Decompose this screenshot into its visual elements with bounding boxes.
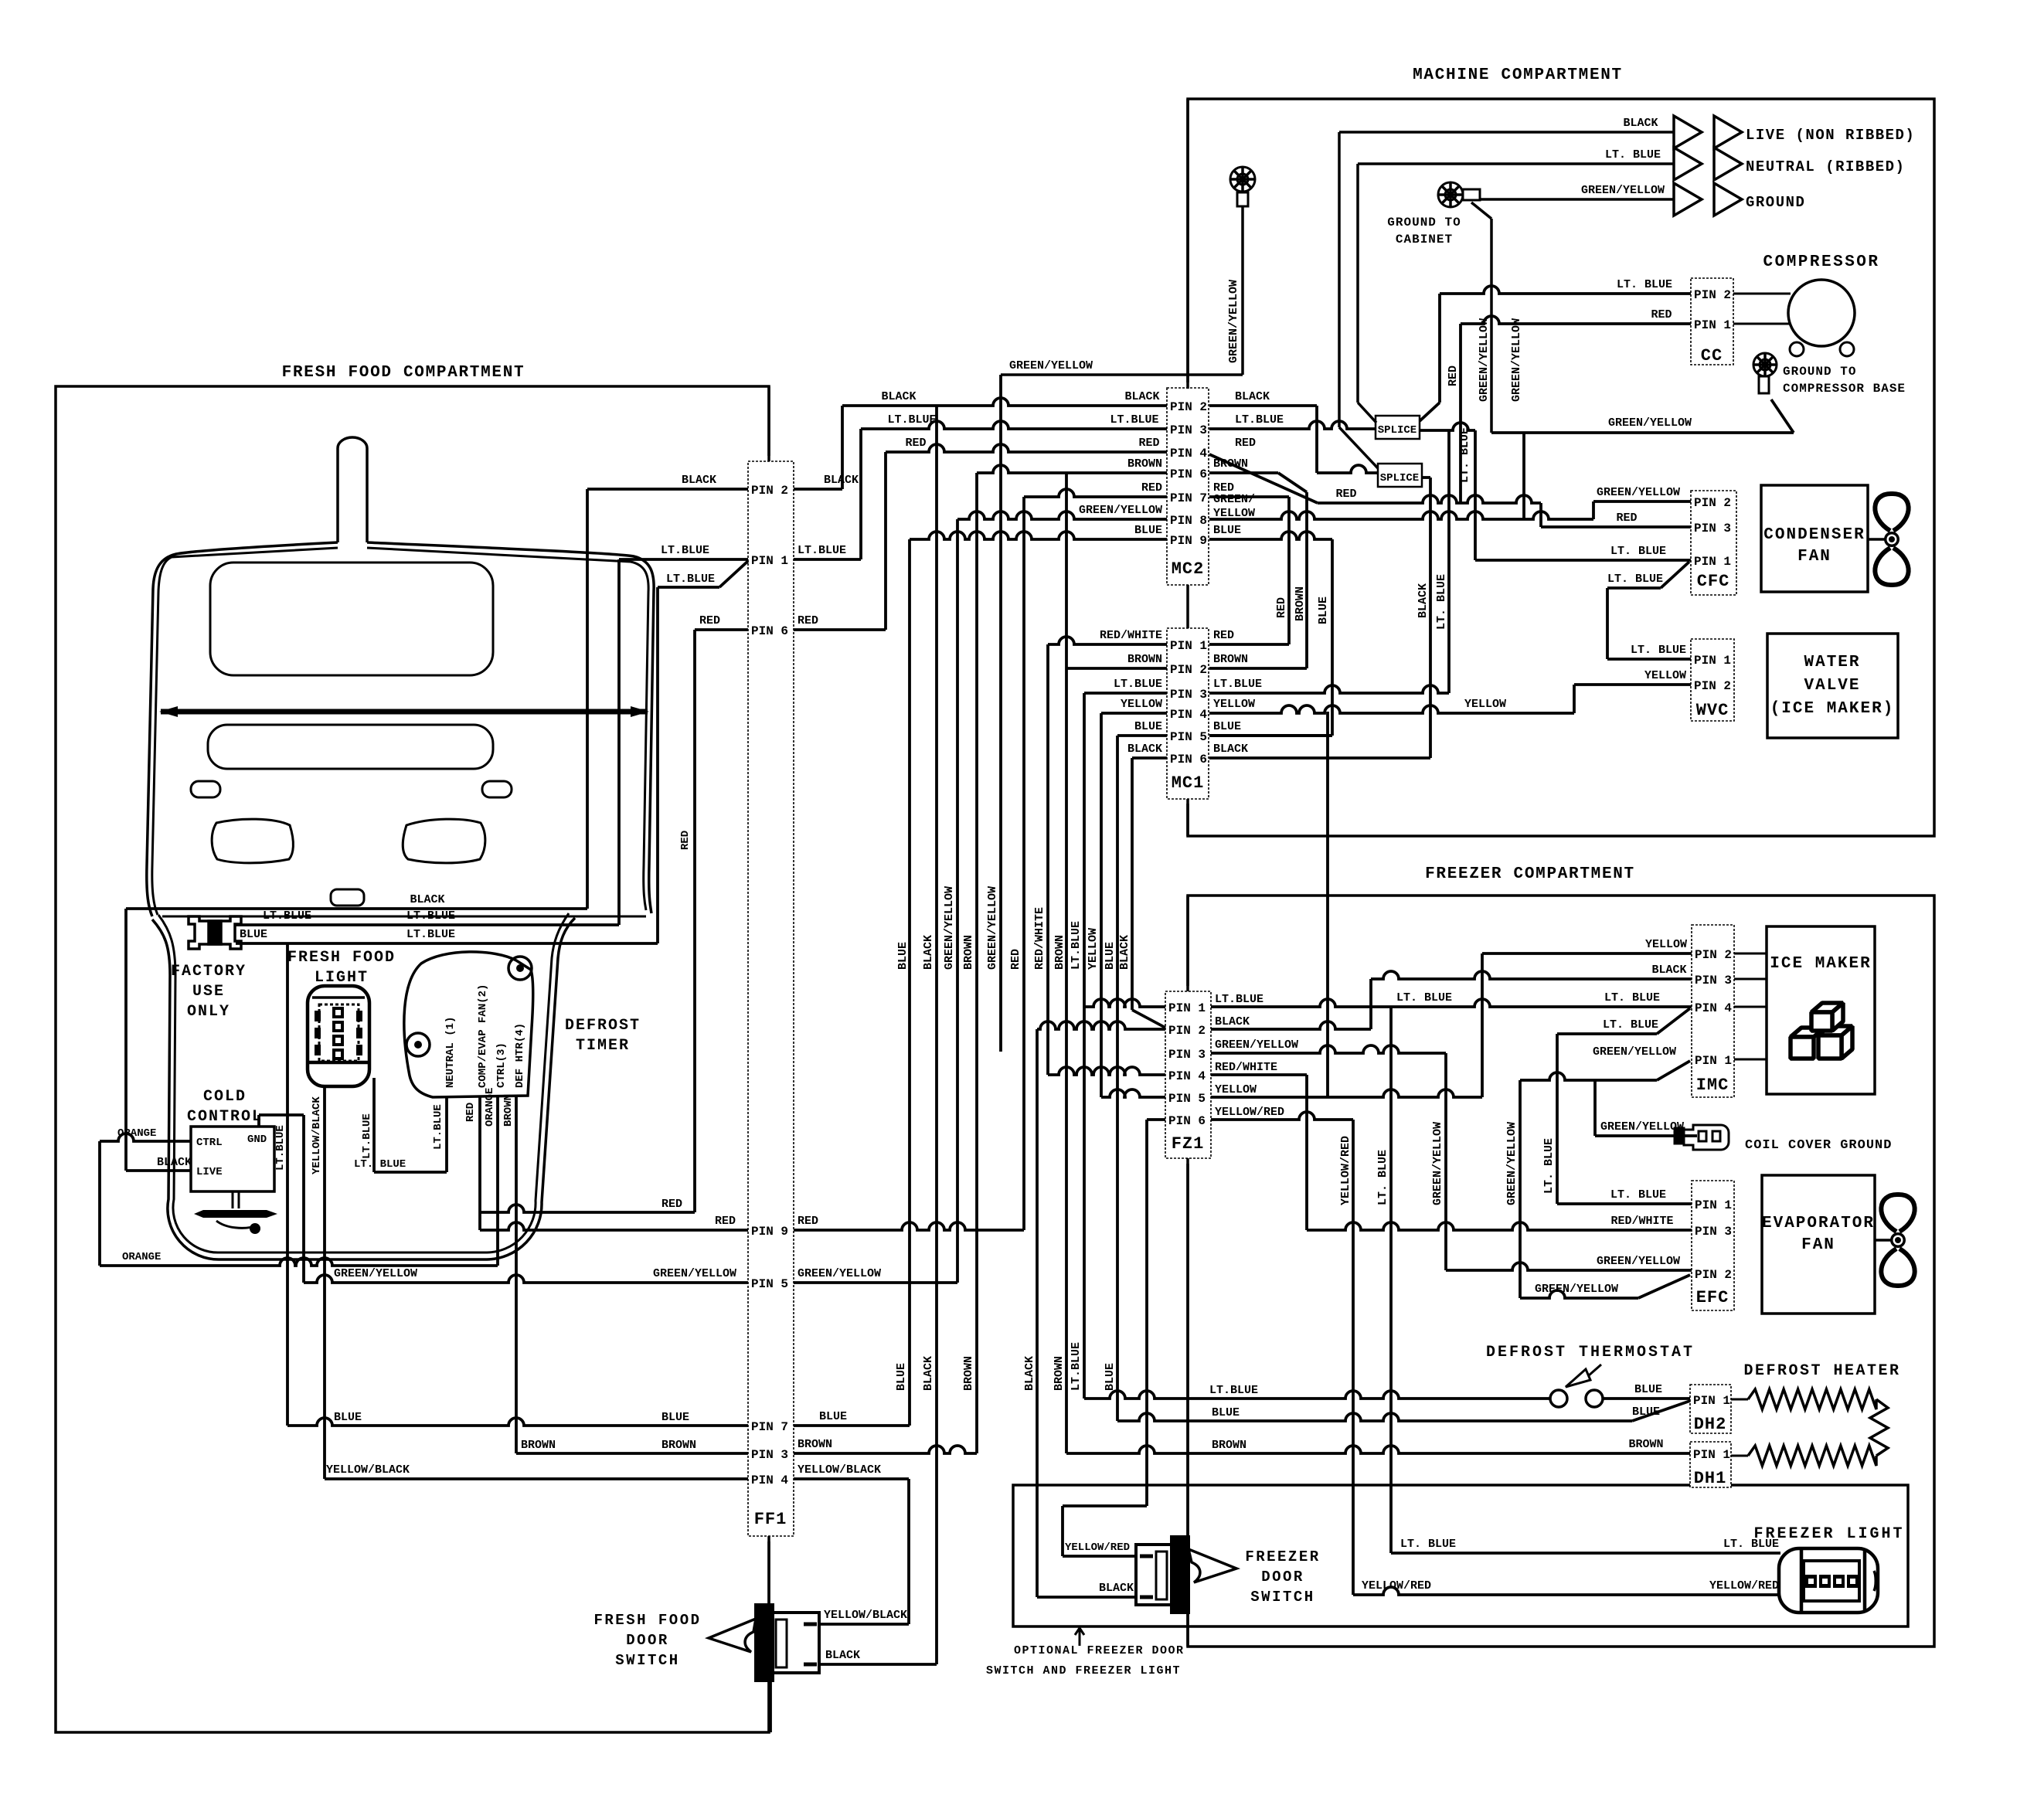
svg-text:PIN 3: PIN 3 bbox=[1170, 423, 1207, 437]
wire BLACK live supply bbox=[1339, 131, 1674, 134]
svg-text:BLUE: BLUE bbox=[1634, 1383, 1662, 1396]
svg-text:LT.BLUE: LT.BLUE bbox=[361, 1113, 373, 1159]
svg-text:PIN 3: PIN 3 bbox=[1170, 688, 1207, 702]
wire YELLOW FZ1 PIN5 to IMC PIN2 bbox=[1211, 1089, 1482, 1097]
svg-text:DH1: DH1 bbox=[1694, 1469, 1727, 1488]
cabinet inner outline bbox=[152, 548, 648, 915]
svg-text:FZ1: FZ1 bbox=[1172, 1134, 1205, 1154]
svg-text:TIMER: TIMER bbox=[576, 1037, 630, 1055]
svg-text:YELLOW/RED: YELLOW/RED bbox=[1709, 1579, 1779, 1592]
svg-text:BROWN: BROWN bbox=[661, 1439, 696, 1452]
svg-text:GREEN/YELLOW: GREEN/YELLOW bbox=[653, 1267, 736, 1280]
svg-text:YELLOW: YELLOW bbox=[1645, 938, 1687, 951]
svg-text:SWITCH: SWITCH bbox=[1250, 1589, 1314, 1606]
connector DH1 bbox=[1690, 1442, 1731, 1487]
fresh food door switch icon bbox=[709, 1605, 819, 1681]
svg-text:BROWN: BROWN bbox=[521, 1439, 556, 1452]
svg-text:BLACK: BLACK bbox=[410, 893, 444, 906]
svg-text:BROWN: BROWN bbox=[1053, 935, 1066, 970]
svg-text:CONDENSER: CONDENSER bbox=[1763, 526, 1865, 544]
wire YELLOW/BLACK FF1 PIN4 to FF door switch bbox=[794, 1477, 909, 1480]
svg-text:PIN 2: PIN 2 bbox=[1694, 288, 1731, 302]
svg-text:RED: RED bbox=[1213, 629, 1234, 642]
svg-text:BLACK: BLACK bbox=[825, 1649, 860, 1662]
svg-text:PIN 2: PIN 2 bbox=[1694, 679, 1731, 693]
svg-text:RED: RED bbox=[1651, 308, 1672, 321]
wire GREEN/YELLOW branch down to PIN8 row bbox=[1522, 433, 1525, 519]
svg-text:PIN 2: PIN 2 bbox=[1170, 400, 1207, 414]
svg-text:PIN 3: PIN 3 bbox=[1694, 522, 1731, 535]
svg-text:BLACK: BLACK bbox=[1118, 935, 1131, 970]
LIVE terminal arrows bbox=[1674, 116, 1702, 148]
svg-text:BROWN: BROWN bbox=[1053, 1356, 1066, 1391]
svg-text:RED: RED bbox=[1235, 437, 1256, 450]
svg-text:FAN: FAN bbox=[1797, 548, 1831, 566]
svg-text:FRESH FOOD COMPARTMENT: FRESH FOOD COMPARTMENT bbox=[282, 364, 525, 382]
factory use plug bbox=[189, 916, 241, 949]
svg-text:PIN 4: PIN 4 bbox=[1170, 447, 1207, 461]
svg-text:BLACK: BLACK bbox=[1213, 743, 1248, 756]
wire BLUE factory plug to FF1 PIN1 second bbox=[236, 942, 658, 945]
wire BLACK MC2 PIN2 to splice2 bbox=[1209, 404, 1317, 407]
svg-text:GREEN/YELLOW: GREEN/YELLOW bbox=[1227, 280, 1240, 363]
svg-text:PIN 1: PIN 1 bbox=[1694, 318, 1731, 332]
svg-text:GREEN/YELLOW: GREEN/YELLOW bbox=[1079, 504, 1162, 517]
wire BLUE MC1 PIN5 left to DH2 row bbox=[1117, 734, 1167, 737]
defrost timer body bbox=[404, 952, 533, 1097]
svg-text:GREEN/YELLOW: GREEN/YELLOW bbox=[1431, 1122, 1444, 1205]
wire LT.BLUE splice1 to CC PIN2 bbox=[1420, 403, 1440, 421]
svg-text:YELLOW/BLACK: YELLOW/BLACK bbox=[311, 1096, 323, 1174]
svg-text:GREEN/YELLOW: GREEN/YELLOW bbox=[1505, 1122, 1519, 1205]
svg-text:BROWN: BROWN bbox=[1212, 1439, 1246, 1452]
svg-text:BLACK: BLACK bbox=[824, 474, 859, 487]
svg-text:ICE MAKER: ICE MAKER bbox=[1770, 955, 1871, 973]
svg-text:RED/WHITE: RED/WHITE bbox=[1610, 1215, 1673, 1228]
wire YELLOW MC1 PIN4 to WVC PIN2 bbox=[1209, 705, 1574, 713]
svg-text:DEFROST THERMOSTAT: DEFROST THERMOSTAT bbox=[1486, 1344, 1695, 1361]
wire BLACK diagonal into splice2 bbox=[1339, 427, 1378, 468]
svg-text:FF1: FF1 bbox=[754, 1510, 787, 1529]
svg-text:PIN 9: PIN 9 bbox=[751, 1225, 788, 1239]
svg-text:PIN 4: PIN 4 bbox=[1170, 708, 1207, 722]
wire RED MC2 PIN7 to MC1 PIN1 bbox=[1209, 495, 1289, 498]
cabinet slot left bbox=[191, 781, 220, 797]
svg-text:RED: RED bbox=[661, 1198, 682, 1211]
svg-text:RED: RED bbox=[798, 614, 818, 627]
wire GREEN/YELLOW cabinet bolt drop bbox=[1471, 202, 1491, 219]
svg-text:PIN 7: PIN 7 bbox=[751, 1420, 788, 1434]
wire BLACK FZ1 PIN2 to IMC PIN3 bbox=[1211, 1021, 1371, 1029]
CC pin wires to compressor bbox=[1733, 293, 1791, 295]
svg-text:LT.BLUE: LT.BLUE bbox=[432, 1104, 444, 1150]
svg-text:GREEN/YELLOW: GREEN/YELLOW bbox=[1593, 1045, 1676, 1059]
svg-text:BLACK: BLACK bbox=[1417, 583, 1430, 618]
svg-text:LT. BLUE: LT. BLUE bbox=[1723, 1538, 1779, 1551]
svg-text:LT.BLUE: LT.BLUE bbox=[887, 413, 936, 427]
svg-text:ORANGE: ORANGE bbox=[484, 1088, 496, 1127]
connector WVC bbox=[1691, 639, 1734, 721]
cabinet lower panel bbox=[208, 725, 493, 769]
svg-text:MACHINE COMPARTMENT: MACHINE COMPARTMENT bbox=[1413, 66, 1623, 84]
svg-text:PIN 2: PIN 2 bbox=[1694, 496, 1731, 510]
svg-text:DOOR: DOOR bbox=[1261, 1569, 1304, 1586]
svg-text:LT.BLUE: LT.BLUE bbox=[406, 928, 455, 941]
cabinet outer outline bbox=[147, 437, 654, 916]
svg-text:BROWN: BROWN bbox=[1213, 457, 1248, 471]
wire LT.BLUE branch to freezer light bbox=[1389, 1007, 1393, 1553]
svg-text:OPTIONAL FREEZER DOOR: OPTIONAL FREEZER DOOR bbox=[1014, 1644, 1185, 1657]
wire BROWN MC1 PIN2 left long vertical to DH1 row bbox=[1066, 667, 1167, 670]
svg-text:LT.BLUE: LT.BLUE bbox=[1209, 1384, 1258, 1397]
svg-text:BLUE: BLUE bbox=[819, 1410, 847, 1423]
wire BLACK splice2 to MC1 PIN6 bbox=[1422, 476, 1430, 479]
svg-text:ONLY: ONLY bbox=[187, 1003, 230, 1021]
freezer door switch icon bbox=[1136, 1537, 1236, 1613]
svg-text:BLUE: BLUE bbox=[895, 1363, 908, 1391]
wire YELLOW/RED FZ1 PIN6 to optional switch bbox=[1147, 1118, 1165, 1121]
svg-text:BLACK: BLACK bbox=[1215, 1015, 1250, 1028]
svg-text:CONTROL: CONTROL bbox=[187, 1108, 263, 1126]
heater right side vertical zigzag bbox=[1870, 1399, 1888, 1456]
wire LT.BLUE lamp to timer NEUTRAL bbox=[372, 1078, 376, 1172]
svg-text:GREEN/YELLOW: GREEN/YELLOW bbox=[1597, 486, 1680, 499]
condenser fan blades bbox=[1875, 494, 1908, 585]
wire RED FF1 PIN6 to MC2 PIN4 bbox=[794, 628, 886, 631]
svg-text:RED: RED bbox=[798, 1215, 818, 1228]
svg-text:GREEN/YELLOW: GREEN/YELLOW bbox=[334, 1267, 417, 1280]
svg-text:YELLOW/BLACK: YELLOW/BLACK bbox=[824, 1609, 907, 1622]
svg-text:DEFROST: DEFROST bbox=[565, 1017, 641, 1035]
svg-text:LT. BLUE: LT. BLUE bbox=[1435, 574, 1448, 630]
optional freezer door switch/light box bbox=[1013, 1485, 1908, 1626]
svg-text:LT. BLUE: LT. BLUE bbox=[1603, 1018, 1658, 1032]
svg-text:CTRL: CTRL bbox=[196, 1137, 223, 1149]
svg-text:BLUE: BLUE bbox=[1213, 524, 1241, 537]
wire LT.BLUE MC1 PIN3 up to splice row bbox=[1209, 685, 1449, 693]
svg-text:BLUE: BLUE bbox=[661, 1411, 689, 1424]
svg-text:GROUND TO: GROUND TO bbox=[1783, 365, 1856, 379]
svg-text:PIN 3: PIN 3 bbox=[751, 1448, 788, 1462]
svg-text:SWITCH AND FREEZER LIGHT: SWITCH AND FREEZER LIGHT bbox=[986, 1664, 1181, 1677]
svg-text:PIN 5: PIN 5 bbox=[751, 1277, 788, 1291]
evaporator fan blades bbox=[1881, 1195, 1914, 1286]
svg-text:COIL COVER GROUND: COIL COVER GROUND bbox=[1745, 1138, 1892, 1153]
svg-text:PIN 5: PIN 5 bbox=[1168, 1092, 1206, 1106]
svg-text:LT. BLUE: LT. BLUE bbox=[1610, 545, 1666, 558]
ground-to-compressor-base bolt bbox=[1753, 353, 1777, 376]
svg-text:ORANGE: ORANGE bbox=[122, 1251, 161, 1263]
wire BLACK FF1 PIN2 to MC2 PIN2 bbox=[794, 488, 842, 491]
svg-text:EVAPORATOR: EVAPORATOR bbox=[1762, 1215, 1875, 1232]
svg-text:RED: RED bbox=[1138, 437, 1159, 450]
svg-text:PIN 1: PIN 1 bbox=[1693, 1394, 1730, 1408]
wire RED/WHITE FZ1 PIN4 to EFC PIN3 bbox=[1211, 1073, 1307, 1076]
connector CC bbox=[1691, 278, 1733, 365]
svg-text:LT.BLUE: LT.BLUE bbox=[1110, 413, 1158, 427]
connector EFC bbox=[1692, 1181, 1734, 1310]
svg-text:LT. BLUE: LT. BLUE bbox=[354, 1158, 406, 1171]
svg-text:RED: RED bbox=[715, 1215, 736, 1228]
svg-text:GREEN/YELLOW: GREEN/YELLOW bbox=[1597, 1255, 1680, 1268]
machine compartment box bbox=[1188, 99, 1934, 836]
wire BLACK FF1 PIN2 to cold control LIVE bbox=[126, 907, 587, 910]
svg-text:LT.BLUE: LT.BLUE bbox=[263, 909, 311, 923]
svg-text:RED: RED bbox=[679, 831, 692, 850]
svg-text:BLUE: BLUE bbox=[1134, 720, 1162, 733]
svg-text:BLACK: BLACK bbox=[1023, 1356, 1036, 1391]
svg-text:BROWN: BROWN bbox=[1127, 457, 1162, 471]
wire RED step down to CFC PIN3 bbox=[1539, 503, 1542, 527]
svg-text:BLACK: BLACK bbox=[682, 474, 716, 487]
cabinet ceiling panel bbox=[210, 563, 493, 675]
svg-text:BLACK: BLACK bbox=[1127, 743, 1162, 756]
defrost thermostat contacts bbox=[1550, 1390, 1567, 1407]
svg-text:PIN 4: PIN 4 bbox=[1695, 1001, 1732, 1015]
svg-text:BROWN: BROWN bbox=[1127, 653, 1162, 666]
wire LT.BLUE IMC PIN4 branch to EFC PIN1 bbox=[1657, 1008, 1690, 1034]
wire ORANGE cold control CTRL to timer bbox=[100, 1134, 191, 1141]
svg-text:RED/WHITE: RED/WHITE bbox=[1215, 1061, 1277, 1074]
svg-text:LT.BLUE: LT.BLUE bbox=[406, 909, 455, 923]
svg-text:YELLOW/RED: YELLOW/RED bbox=[1215, 1106, 1284, 1119]
svg-text:GREEN/YELLOW: GREEN/YELLOW bbox=[1608, 416, 1692, 430]
svg-text:LT. BLUE: LT. BLUE bbox=[1631, 644, 1686, 657]
wire BLACK MC1 PIN6 left to FZ1 PIN2 bbox=[1132, 756, 1167, 760]
water valve box bbox=[1767, 634, 1898, 738]
svg-text:BROWN: BROWN bbox=[798, 1438, 832, 1451]
wire LT.BLUE diagonal into splice1 bbox=[1358, 403, 1376, 423]
svg-text:PIN 4: PIN 4 bbox=[751, 1473, 788, 1487]
svg-text:BLACK: BLACK bbox=[881, 390, 916, 403]
svg-text:GREEN/YELLOW: GREEN/YELLOW bbox=[1478, 318, 1491, 402]
svg-text:PIN 3: PIN 3 bbox=[1168, 1048, 1206, 1062]
svg-text:GREEN/YELLOW: GREEN/YELLOW bbox=[943, 886, 956, 970]
svg-text:BLACK: BLACK bbox=[1124, 390, 1159, 403]
svg-text:BLUE: BLUE bbox=[1317, 597, 1330, 624]
cabinet pan right bbox=[403, 819, 485, 863]
svg-text:BLACK: BLACK bbox=[922, 935, 935, 970]
compressor motor circle bbox=[1788, 280, 1855, 346]
splice box 2 bbox=[1378, 464, 1422, 487]
svg-text:SWITCH: SWITCH bbox=[615, 1652, 679, 1669]
svg-text:BLUE: BLUE bbox=[1104, 942, 1117, 970]
svg-text:YELLOW: YELLOW bbox=[1464, 698, 1506, 711]
svg-text:BLUE: BLUE bbox=[1134, 524, 1162, 537]
thermostat lever arrow bbox=[1566, 1369, 1590, 1387]
svg-text:BLUE: BLUE bbox=[1212, 1406, 1240, 1419]
connector IMC bbox=[1692, 925, 1734, 1097]
svg-text:BLACK: BLACK bbox=[1099, 1582, 1134, 1595]
svg-text:LT. BLUE: LT. BLUE bbox=[1542, 1138, 1556, 1194]
svg-text:WATER: WATER bbox=[1804, 654, 1860, 671]
svg-text:PIN 1: PIN 1 bbox=[1693, 1448, 1730, 1462]
wire LT.BLUE splice1 right to CFC PIN1 bbox=[1420, 423, 1475, 430]
svg-text:LT.BLUE: LT.BLUE bbox=[661, 544, 709, 557]
wire BLACK bundle from black row to FF door switch bbox=[935, 406, 938, 1664]
svg-text:GROUND TO: GROUND TO bbox=[1387, 216, 1461, 229]
wire LT.BLUE MC2 PIN3 to splice1 bbox=[1209, 421, 1376, 429]
svg-text:YELLOW/BLACK: YELLOW/BLACK bbox=[798, 1463, 881, 1477]
svg-text:GROUND: GROUND bbox=[1746, 194, 1805, 211]
svg-text:BLUE: BLUE bbox=[1213, 720, 1241, 733]
fresh food compartment box bbox=[56, 386, 769, 1732]
svg-text:PIN 2: PIN 2 bbox=[1168, 1024, 1206, 1038]
wire BLACK FZ1 PIN2 left to freezer door switch bbox=[1037, 1021, 1165, 1029]
svg-text:COMPRESSOR: COMPRESSOR bbox=[1763, 253, 1879, 271]
ground-to-cabinet bolt bbox=[1438, 182, 1463, 207]
svg-text:BLUE: BLUE bbox=[334, 1411, 362, 1424]
connector FF1 bbox=[748, 461, 794, 1536]
wire GREEN/YELLOW cabinet run to compressor base bbox=[1491, 431, 1794, 434]
defrost heater element zigzag bbox=[1748, 1389, 1876, 1409]
svg-text:PIN 3: PIN 3 bbox=[1695, 1225, 1732, 1239]
svg-text:PIN 1: PIN 1 bbox=[1695, 1198, 1732, 1212]
svg-text:GREEN/YELLOW: GREEN/YELLOW bbox=[1215, 1038, 1298, 1052]
wire YELLOW MC1 PIN4 left to FZ1 PIN5 bbox=[1101, 712, 1167, 715]
wire BROWN FF1 PIN3 row bbox=[794, 1446, 977, 1453]
wire LT.BLUE FF1 PIN1 to MC2 PIN3 bbox=[794, 558, 861, 561]
svg-text:YELLOW: YELLOW bbox=[1215, 1083, 1257, 1096]
svg-text:LT.BLUE: LT.BLUE bbox=[798, 544, 846, 557]
svg-text:YELLOW: YELLOW bbox=[1213, 698, 1255, 711]
connector DH2 bbox=[1690, 1385, 1731, 1433]
box edge segments at connectors bbox=[1186, 99, 1189, 389]
wire BROWN MC2 PIN6 to MC1 PIN2 bbox=[1209, 471, 1278, 474]
wire BROWN bundle MC2 PIN6 left to FF1 PIN3 row bbox=[977, 465, 1167, 473]
svg-text:PIN 6: PIN 6 bbox=[751, 624, 788, 638]
IMC pin stub wires to ice maker bbox=[1734, 953, 1767, 955]
wire RED timer FAN2 to FF1 PIN6/PIN9 bbox=[478, 1097, 481, 1230]
wire GREEN/YELLOW cold control GND to FF1 PIN5 bbox=[257, 1115, 260, 1127]
svg-text:GREEN/YELLOW: GREEN/YELLOW bbox=[1581, 184, 1665, 197]
svg-text:DOOR: DOOR bbox=[626, 1632, 669, 1649]
svg-text:FRESH FOOD: FRESH FOOD bbox=[593, 1612, 701, 1629]
svg-text:WVC: WVC bbox=[1696, 701, 1729, 720]
svg-text:RED: RED bbox=[1447, 365, 1460, 386]
svg-text:FACTORY: FACTORY bbox=[171, 963, 247, 981]
cold control box bbox=[191, 1127, 274, 1191]
svg-text:DH2: DH2 bbox=[1694, 1415, 1727, 1434]
svg-text:BLACK: BLACK bbox=[1651, 964, 1686, 977]
coil cover ground icon bbox=[1675, 1125, 1729, 1150]
cabinet center notch bbox=[331, 889, 364, 906]
svg-text:YELLOW: YELLOW bbox=[1644, 669, 1686, 682]
cold control shaft and wiper bbox=[233, 1191, 239, 1208]
svg-text:RED: RED bbox=[1335, 488, 1356, 501]
svg-text:PIN 1: PIN 1 bbox=[1170, 639, 1207, 653]
wire RED MC2 PIN4 net bbox=[1209, 454, 1318, 503]
connector MC1 bbox=[1167, 628, 1209, 799]
svg-text:PIN 3: PIN 3 bbox=[1695, 974, 1732, 987]
svg-text:LT.BLUE: LT.BLUE bbox=[1235, 413, 1284, 427]
wire LT.BLUE MC1 PIN3 left to FZ1 PIN1 and thermostat bbox=[1084, 692, 1167, 695]
svg-text:GREEN/YELLOW: GREEN/YELLOW bbox=[1510, 318, 1523, 402]
svg-text:LT. BLUE: LT. BLUE bbox=[1396, 991, 1452, 1004]
svg-text:GREEN/YELLOW: GREEN/YELLOW bbox=[1600, 1120, 1684, 1134]
wire LT.BLUE thermostat row to DH2 bbox=[1084, 1391, 1550, 1399]
svg-text:BROWN: BROWN bbox=[962, 1356, 975, 1391]
svg-text:LT.BLUE: LT.BLUE bbox=[1114, 678, 1162, 691]
svg-text:PIN 1: PIN 1 bbox=[751, 554, 788, 568]
svg-text:RED: RED bbox=[1616, 512, 1637, 525]
ice maker box bbox=[1767, 926, 1875, 1094]
svg-text:LIGHT: LIGHT bbox=[315, 969, 369, 987]
svg-text:MC1: MC1 bbox=[1172, 773, 1205, 793]
svg-text:GND: GND bbox=[247, 1134, 267, 1146]
wire BROWN row to DH1 bbox=[1066, 1446, 1690, 1453]
svg-text:PIN 1: PIN 1 bbox=[1694, 654, 1731, 668]
fresh food light lamp icon bbox=[308, 986, 369, 1086]
svg-text:BROWN: BROWN bbox=[1628, 1438, 1663, 1451]
svg-text:BROWN: BROWN bbox=[1213, 653, 1248, 666]
NEUTRAL terminal arrows bbox=[1674, 148, 1702, 180]
svg-text:CFC: CFC bbox=[1697, 572, 1730, 591]
svg-text:COMP/EVAP FAN(2): COMP/EVAP FAN(2) bbox=[477, 984, 489, 1088]
wire LT.BLUE CFC PIN1 branch to WVC PIN1 bbox=[1661, 562, 1689, 588]
wire BLUE MC2 PIN9 to MC1 PIN5 bbox=[1209, 532, 1332, 539]
wire BLUE cold control branch to FF1 PIN7 bbox=[286, 943, 289, 1426]
svg-text:LT. BLUE: LT. BLUE bbox=[1604, 991, 1660, 1004]
evaporator fan box bbox=[1762, 1175, 1875, 1314]
ice cubes icon bbox=[1791, 1003, 1852, 1059]
wire BLACK vertical from LIVE bbox=[1338, 132, 1341, 427]
wire YELLOW/BLACK lamp to FF1 PIN4 bbox=[323, 1086, 326, 1479]
svg-text:PIN 4: PIN 4 bbox=[1168, 1069, 1206, 1083]
wire RED MC2 PIN7 left to FF1 PIN9 bbox=[1024, 489, 1167, 497]
wire FF door switch bottom to box edge bbox=[769, 1673, 772, 1732]
optional box caption arrow bbox=[1075, 1628, 1084, 1646]
svg-text:PIN 5: PIN 5 bbox=[1170, 730, 1207, 744]
condenser fan box bbox=[1761, 485, 1868, 592]
svg-text:COLD: COLD bbox=[203, 1088, 247, 1106]
cabinet pan left bbox=[212, 819, 293, 863]
wire YELLOW/RED FZ1 PIN6 right to freezer light bbox=[1211, 1112, 1353, 1120]
svg-text:LIVE (NON RIBBED): LIVE (NON RIBBED) bbox=[1746, 127, 1915, 144]
svg-text:RED/WHITE: RED/WHITE bbox=[1100, 629, 1162, 642]
wire GREEN/YELLOW ground supply bbox=[1480, 198, 1674, 201]
svg-text:PIN 1: PIN 1 bbox=[1694, 555, 1731, 569]
wire BLUE bundle MC2 PIN9 left to FF1 PIN7 bbox=[910, 532, 1167, 539]
wire RED vertical to CC PIN1 bbox=[1459, 324, 1462, 503]
svg-text:LIVE: LIVE bbox=[196, 1166, 223, 1178]
freezer compartment box bbox=[1188, 896, 1934, 1647]
svg-text:YELLOW: YELLOW bbox=[1213, 507, 1255, 520]
svg-text:GREEN/YELLOW: GREEN/YELLOW bbox=[1535, 1283, 1618, 1296]
wire GREEN/YELLOW IMC PIN1 / coil ground / EFC PIN2 bbox=[1657, 1061, 1690, 1080]
svg-text:PIN 6: PIN 6 bbox=[1170, 467, 1207, 481]
svg-text:BLUE: BLUE bbox=[1632, 1405, 1660, 1419]
svg-text:LT.BLUE: LT.BLUE bbox=[666, 573, 715, 586]
svg-text:SPLICE: SPLICE bbox=[1380, 472, 1419, 484]
svg-text:BROWN: BROWN bbox=[962, 935, 975, 970]
svg-text:NEUTRAL (1): NEUTRAL (1) bbox=[444, 1017, 457, 1088]
wire LT.BLUE FZ1 PIN1 to IMC PIN4 bbox=[1211, 999, 1692, 1007]
wire LT.BLUE factory plug to FF1 PIN1 bbox=[236, 923, 619, 926]
svg-text:FREEZER COMPARTMENT: FREEZER COMPARTMENT bbox=[1425, 865, 1635, 883]
svg-text:BLUE: BLUE bbox=[240, 928, 267, 941]
cabinet bottom rail bbox=[162, 916, 646, 918]
svg-text:LT. BLUE: LT. BLUE bbox=[1376, 1150, 1389, 1205]
svg-text:CC: CC bbox=[1701, 346, 1723, 365]
door outline bbox=[152, 918, 575, 1259]
cabinet slot right bbox=[482, 781, 512, 797]
svg-text:NEUTRAL (RIBBED): NEUTRAL (RIBBED) bbox=[1746, 158, 1905, 175]
svg-text:LT.BLUE: LT.BLUE bbox=[1070, 921, 1083, 970]
svg-text:RED: RED bbox=[1275, 597, 1288, 618]
svg-text:MC2: MC2 bbox=[1172, 559, 1205, 579]
svg-text:YELLOW: YELLOW bbox=[1087, 928, 1100, 970]
